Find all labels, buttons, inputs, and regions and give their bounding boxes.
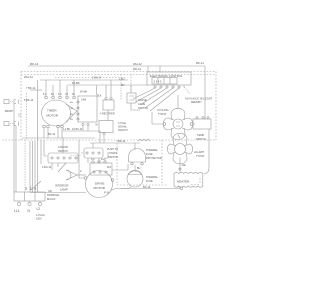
wire bottom neutral left: [30, 192, 86, 194]
console dashed outline top: [21, 71, 216, 73]
svg-text:BK-14: BK-14: [30, 62, 39, 66]
thermal fuse F1: [129, 149, 146, 163]
timer motor TM: [42, 100, 71, 126]
svg-text:START: START: [109, 152, 117, 155]
push start terminal c: [98, 152, 100, 154]
door switch terminal 1: [51, 157, 53, 159]
svg-text:4A BU-14: 4A BU-14: [72, 128, 83, 131]
svg-text:T'STAT: T'STAT: [158, 112, 167, 116]
timer cam cone: [66, 104, 77, 122]
wire push start stubs: [81, 143, 99, 163]
cycling thermostat terminal R: [190, 123, 193, 126]
svg-text:FUSE: FUSE: [146, 153, 153, 156]
cycle signal switch S5: [99, 121, 113, 133]
svg-text:TEMP: TEMP: [197, 133, 204, 137]
svg-text:7D: 7D: [65, 93, 68, 96]
svg-text:5A WH: 5A WH: [80, 91, 87, 94]
temp switch terminal 3: [207, 117, 209, 119]
svg-text:BU: BU: [121, 84, 125, 87]
cord mark: [18, 114, 21, 116]
wire lamp to motor: [77, 174, 86, 176]
wire timer aux run: [62, 126, 100, 143]
svg-text:MEMORY: MEMORY: [191, 101, 202, 104]
door switch actuator: [58, 163, 66, 172]
svg-text:P-14: P-14: [104, 191, 110, 195]
dashed vertical left inner: [26, 93, 28, 140]
svg-text:M-5: M-5: [107, 166, 112, 169]
wire rectifier to signal switch: [107, 110, 109, 121]
svg-text:RD-12: RD-12: [133, 67, 142, 71]
svg-text:M: M: [96, 125, 98, 127]
svg-text:5-2: 5-2: [43, 93, 47, 96]
svg-text:2 3 4 5: 2 3 4 5: [154, 80, 162, 84]
cabinet dashed bottom: [117, 178, 200, 185]
svg-text:BU: BU: [137, 167, 141, 170]
wire tstat feed: [152, 95, 178, 124]
power cord connector 1: [4, 100, 9, 104]
svg-text:FUSE: FUSE: [146, 180, 153, 183]
svg-text:4A: 4A: [70, 101, 73, 104]
heater R1: [174, 172, 203, 187]
svg-text:120V: 120V: [36, 218, 42, 221]
control terminal c1: [154, 86, 156, 88]
cabinet dashed inner: [116, 140, 118, 185]
switch block bottom terminals: [82, 123, 84, 125]
push to start switch S2: [84, 148, 103, 158]
svg-text:BK-14: BK-14: [196, 61, 204, 65]
door switch terminal 2: [57, 157, 59, 159]
svg-text:SWITCH: SWITCH: [108, 156, 118, 159]
svg-text:7 BK-14: 7 BK-14: [26, 86, 36, 90]
control inner block: [152, 78, 177, 85]
rectifier terminal a: [105, 98, 107, 100]
svg-text:TIMER: TIMER: [47, 109, 57, 113]
svg-text:SWITCH: SWITCH: [118, 129, 128, 132]
wire horizontal under timer: [22, 137, 95, 139]
svg-text:HEATER: HEATER: [177, 180, 190, 184]
svg-text:THERMAL: THERMAL: [146, 176, 159, 179]
hi-limit thermostat TS2: [175, 144, 186, 155]
wire tstat to temp switch: [193, 123, 195, 125]
door switch terminal 3: [63, 157, 65, 159]
motor switch box: [90, 163, 112, 175]
control terminal c5: [178, 86, 180, 88]
rectifier terminal b: [110, 98, 112, 100]
wire drop to control box: [148, 66, 160, 72]
timer terminal T5: [73, 96, 76, 99]
terminal block TB1: [14, 192, 45, 201]
wire stub left: [30, 89, 42, 91]
svg-text:5 BK-14: 5 BK-14: [24, 98, 34, 102]
console dashed wire row: [21, 74, 216, 76]
wire motor switch feeds: [105, 152, 108, 161]
svg-text:L-BU: L-BU: [119, 78, 125, 81]
wire zigzag: [138, 139, 150, 141]
svg-text:LAMP: LAMP: [60, 188, 68, 192]
wire left feed vertical 2: [15, 126, 17, 192]
wire door switch drops: [52, 163, 58, 170]
svg-text:SWITCH: SWITCH: [196, 137, 206, 141]
cycling thermostat terminal L: [163, 123, 166, 126]
timer terminal T3: [59, 96, 62, 99]
svg-text:BLK: BLK: [97, 95, 102, 98]
cycling thermostat TS1: [173, 119, 183, 129]
cabinet dashed right: [161, 140, 163, 184]
svg-text:WH-14: WH-14: [24, 75, 33, 79]
svg-text:2: 2: [80, 170, 82, 173]
control terminal c3: [166, 86, 168, 88]
wire control to buzzer dashed: [183, 85, 185, 87]
wire fuse2 down: [121, 187, 131, 189]
wire bottom neutral right: [111, 189, 180, 191]
pause care switch S4: [127, 93, 136, 103]
svg-text:5B: 5B: [70, 119, 73, 121]
drive motor terminal L: [84, 177, 87, 180]
svg-text:4C: 4C: [72, 93, 75, 96]
timer bottom terminal B2: [47, 125, 50, 128]
motor switch terminal 1: [92, 161, 94, 163]
wire temp switch down: [204, 129, 209, 174]
wire mid horizontal: [90, 142, 140, 144]
svg-text:MOTOR: MOTOR: [47, 114, 59, 118]
wire motor right link: [112, 164, 128, 170]
svg-text:CYCLING: CYCLING: [157, 108, 169, 112]
svg-text:BK-14: BK-14: [143, 185, 151, 189]
dashed vertical left lower: [24, 140, 26, 192]
svg-text:BR/WH: BR/WH: [5, 110, 13, 113]
svg-text:RD: RD: [26, 186, 28, 190]
svg-text:HI-LIMIT: HI-LIMIT: [194, 150, 205, 154]
temp switch terminal 1: [196, 117, 198, 119]
wire control diagonals: [133, 88, 179, 111]
svg-text:CAM: CAM: [81, 99, 86, 102]
svg-text:BK-14: BK-14: [118, 139, 126, 143]
bolt stubs: [19, 201, 40, 202]
svg-text:DRIVE: DRIVE: [95, 182, 104, 186]
timer terminal T2: [52, 96, 55, 99]
timer terminal T1: [45, 96, 48, 99]
terminal bolt L2: [38, 202, 41, 205]
control terminal c4: [172, 86, 174, 88]
timer terminal T4: [66, 96, 69, 99]
wire motor left feed 2: [79, 140, 84, 178]
motor switch terminal 2: [98, 161, 100, 163]
drive motor terminal R: [111, 179, 114, 182]
svg-text:WH-12: WH-12: [133, 62, 142, 66]
svg-text:6-4: 6-4: [91, 158, 95, 161]
door switch terminal 5: [75, 157, 77, 159]
wire pause switch stub: [131, 85, 140, 110]
timer bottom terminal B1: [43, 125, 46, 128]
wire rectifier feeds: [106, 80, 111, 98]
svg-text:N: N: [28, 209, 31, 213]
svg-text:4 RECTIFIER: 4 RECTIFIER: [100, 113, 115, 116]
svg-text:6A: 6A: [51, 93, 54, 96]
svg-text:PROTECTOR: PROTECTOR: [146, 157, 162, 160]
svg-text:6-2: 6-2: [101, 158, 105, 161]
cabinet dashed divider: [2, 139, 216, 141]
wire door feeds left: [41, 140, 47, 164]
console dashed outline left: [20, 72, 22, 141]
control terminal c2: [160, 86, 162, 88]
svg-text:BK-14: BK-14: [48, 132, 56, 136]
svg-text:T'STAT: T'STAT: [196, 154, 205, 158]
wire stubs to timer terminals: [46, 80, 74, 96]
thermal fuse F2: [127, 171, 143, 187]
svg-text:L2: L2: [37, 207, 41, 211]
svg-text:TERMINAL: TERMINAL: [47, 194, 60, 197]
terminal bolt N: [28, 202, 31, 205]
interior lamp LP1: [66, 170, 77, 180]
wire fuse1 feed: [134, 143, 136, 150]
svg-text:LL1: LL1: [14, 209, 20, 213]
wire heater to neutral: [178, 187, 181, 189]
wire door switch feed: [62, 138, 64, 153]
wire timer bottom drops: [44, 128, 62, 138]
door switch S1: [48, 153, 78, 163]
door switch terminal 4: [69, 157, 71, 159]
svg-text:BLOCK: BLOCK: [47, 198, 56, 201]
push start terminal a: [86, 152, 88, 154]
power cord connector 2: [4, 122, 9, 126]
cycle signal terminal: [103, 132, 105, 134]
wire into switch block: [96, 86, 98, 96]
wire dashed drop: [120, 75, 122, 101]
temp switch terminal 2: [202, 117, 204, 119]
temp switch S6: [193, 119, 211, 129]
svg-text:RD: RD: [182, 163, 186, 167]
wire left feed vertical 1: [13, 104, 15, 192]
wire drops to terminal block: [30, 80, 38, 192]
fuse F1 terminal L: [131, 163, 133, 165]
motor switch inner contacts: [93, 171, 95, 173]
svg-text:6A BK: 6A BK: [72, 81, 80, 85]
wire top horizontal L1: [28, 65, 205, 67]
heater neutral terminal: [180, 187, 183, 190]
svg-text:4 BU-14: 4 BU-14: [42, 166, 52, 169]
motor switch terminal 3: [104, 161, 106, 163]
wire hi-limit down RD: [179, 158, 181, 174]
wire fuse link BU: [134, 165, 136, 171]
timer bottom terminal B3: [57, 125, 60, 128]
timer switch block: [78, 96, 97, 122]
console dashed outline right: [215, 72, 217, 141]
rectifier U1: [103, 100, 114, 110]
push start terminal b: [92, 152, 94, 154]
terminal bolt LL1: [17, 202, 20, 205]
svg-text:MOTOR: MOTOR: [94, 186, 106, 190]
drive motor M1: [86, 171, 113, 198]
wire drop to temp switch: [204, 66, 206, 119]
electronic control U2: [147, 72, 191, 85]
timer bottom terminal B4: [61, 125, 64, 128]
svg-text:PUSH TO: PUSH TO: [107, 148, 118, 151]
hi-limit lower terminal: [179, 168, 181, 170]
switch block terminals: [77, 101, 79, 103]
svg-text:THERMAL: THERMAL: [146, 149, 159, 152]
wire tstat link: [178, 135, 180, 139]
fuse F1 terminal R: [141, 163, 143, 165]
